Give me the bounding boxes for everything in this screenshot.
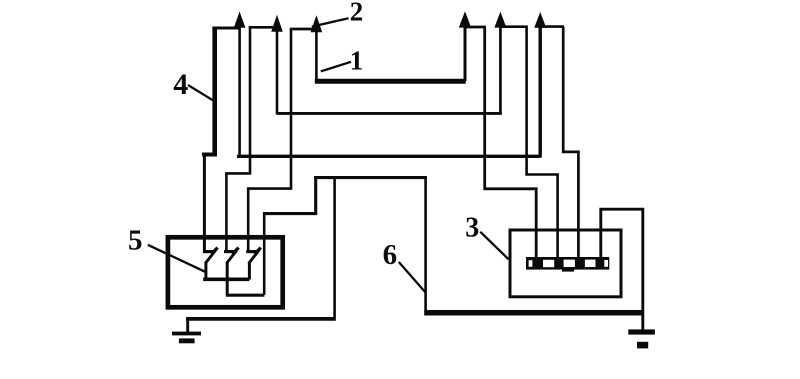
arrow head B2: [494, 12, 506, 28]
wire long horizontal bus: [237, 155, 541, 158]
contact c2 lower lead: [226, 262, 229, 295]
terminal strip cutout 3: [564, 260, 575, 267]
wire U2 loop bottom: [226, 294, 265, 297]
wire tick pair R1: [465, 26, 486, 29]
svg-text:6: 6: [383, 239, 398, 271]
contact c3 diagonal: [249, 250, 260, 264]
ground GND2 bar 1: [628, 329, 655, 334]
wire R2 right leg to box 3: [527, 27, 558, 259]
arrow lead A1 shaft: [238, 24, 241, 157]
leader line label 4: [188, 85, 215, 101]
wire wrap around box 3: [601, 209, 643, 330]
svg-text:3: 3: [465, 213, 479, 244]
wire 6 left leg: [333, 176, 336, 318]
contact c3 barb: [255, 248, 261, 254]
ground GND1 bar 1: [172, 332, 201, 336]
wire bottom right thick bus: [424, 310, 641, 316]
wire to contact c1: [203, 153, 206, 252]
leader line label 3: [480, 232, 508, 259]
terminal strip cutout 2: [543, 260, 554, 267]
svg-text:5: 5: [128, 225, 143, 257]
contact c3 tick: [246, 250, 259, 253]
wire 6 right leg: [424, 176, 427, 312]
contact c1 tick: [203, 250, 215, 253]
terminal strip cutout 1: [529, 260, 533, 267]
wire horizontal mid bus: [277, 112, 502, 115]
arrow lead A2 shaft: [276, 28, 279, 114]
terminal strip cutout 4: [585, 260, 596, 267]
wire top bar pair 1: [212, 27, 239, 30]
leader line label 6: [399, 262, 426, 292]
wire R3 right leg to box 3: [563, 27, 578, 259]
contact c3 lower lead: [248, 262, 251, 280]
wire 4 thick vertical lead: [212, 27, 217, 155]
terminal strip in box 3: [526, 257, 609, 270]
arrow head A2: [271, 15, 283, 32]
contact c1 barb: [211, 248, 217, 254]
arrow head B1: [459, 11, 471, 27]
arrow lead B3 shaft: [539, 24, 542, 158]
wire staircase to box 5: [263, 212, 317, 215]
wire 6 stub: [314, 176, 317, 214]
svg-text:2: 2: [350, 0, 364, 27]
wire top bar pair 2: [249, 26, 280, 29]
wire W4 into box 5: [263, 212, 266, 295]
arrow lead B2 shaft: [499, 24, 502, 114]
box 3 enclosure: [510, 230, 621, 297]
wire step from lead 4: [202, 153, 217, 157]
arrow head A1: [234, 12, 246, 28]
arrow head A3: [311, 15, 323, 32]
wire 6 top bar: [314, 176, 427, 179]
contact c2 barb: [232, 248, 238, 254]
wire top bar pair 3: [290, 28, 321, 31]
terminal strip cutout 5: [604, 260, 608, 267]
contact c2 diagonal: [226, 250, 237, 264]
terminal strip notch below: [562, 269, 574, 271]
wire bottom left bus: [186, 317, 336, 321]
wire R1 right leg to box 3: [485, 27, 537, 259]
arrow lead A3 shaft: [315, 30, 318, 83]
arrow lead B1 shaft: [464, 24, 467, 81]
svg-text:4: 4: [173, 68, 188, 101]
wire ground stem left: [186, 317, 189, 333]
wire tick pair R3: [540, 25, 564, 28]
leader line label 1: [321, 62, 351, 72]
contact c2 tick: [224, 250, 237, 253]
ground GND2 bar 2: [637, 342, 648, 349]
wire tick pair R2: [500, 25, 527, 28]
wire 1 thick horizontal bus: [315, 79, 466, 84]
contact c1 lower lead: [204, 262, 207, 280]
box 5 enclosure: [168, 237, 283, 307]
wire U1 loop bottom: [203, 277, 249, 281]
wire pair 2 left leg to contact c2: [226, 28, 250, 252]
ground GND1 bar 2: [179, 338, 195, 343]
wire pair 3 left leg to contact c3: [248, 29, 291, 252]
leader line label 5: [148, 245, 207, 272]
arrow head B3: [534, 12, 546, 28]
leader line label 2: [312, 18, 349, 26]
svg-text:1: 1: [350, 45, 364, 75]
contact c1 diagonal: [205, 250, 216, 264]
